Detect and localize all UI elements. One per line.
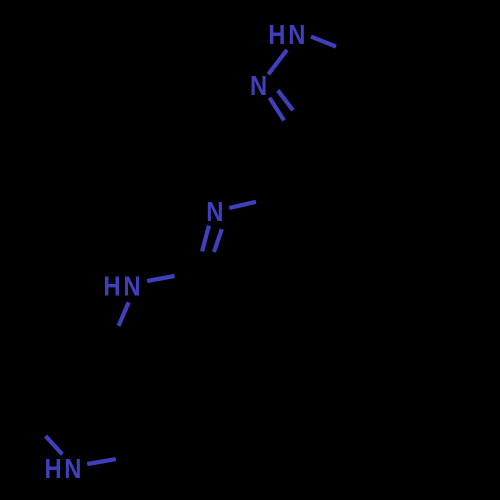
wire piperidine N-C3' half-bond	[46, 436, 63, 454]
wire linker N-C4(piperidine) half-bond	[119, 302, 129, 326]
svg-text:N: N	[123, 270, 140, 302]
wire N1-N2 bond	[268, 50, 287, 75]
pyrazole N1-H label N glyph	[288, 18, 305, 50]
pyridine N label	[206, 195, 223, 227]
svg-text:N: N	[250, 69, 267, 101]
wire N1-C5 half-bond	[311, 37, 336, 47]
wire pyridine N=C2 double bond main half	[202, 226, 209, 252]
svg-text:N: N	[64, 452, 81, 484]
wire linker N-C2(pyridine) half-bond	[147, 276, 174, 281]
piperidine NH label N glyph	[64, 452, 81, 484]
svg-text:H: H	[45, 452, 62, 484]
svg-text:N: N	[288, 18, 305, 50]
amine linker HN label H glyph	[103, 270, 120, 302]
wire N2=C3 double bond main half	[270, 98, 285, 121]
wire pyridine N=C2 double bond inner half	[214, 229, 222, 252]
wire piperidine N-C2' half-bond	[87, 459, 116, 464]
wire pyridine N-C6 half-bond	[229, 202, 256, 208]
wire N2=C3 double bond inner half	[278, 90, 293, 110]
pyrazole N1-H label H glyph	[268, 18, 285, 50]
pyrazole N2 label	[250, 69, 267, 101]
svg-text:H: H	[268, 18, 285, 50]
svg-text:H: H	[103, 270, 120, 302]
amine linker HN label N glyph	[123, 270, 140, 302]
piperidine NH label H glyph	[45, 452, 62, 484]
svg-text:N: N	[206, 195, 223, 227]
